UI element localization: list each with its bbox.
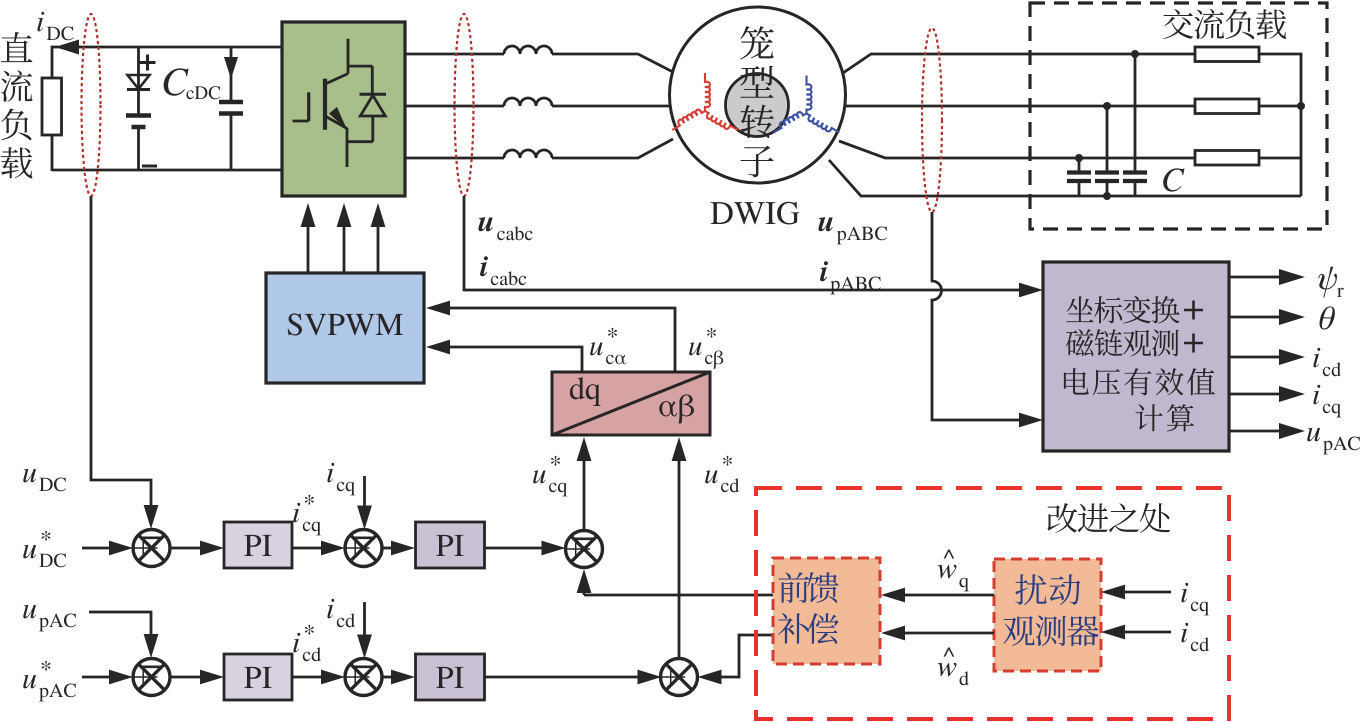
resistor DC load xyxy=(42,78,62,135)
label u_pAC* xyxy=(23,661,76,702)
wire phase b inverter-machine xyxy=(405,105,670,108)
label i_pABC xyxy=(820,261,881,294)
label u_DC xyxy=(23,469,66,492)
wire phase C machine-load xyxy=(839,141,1195,158)
wire w_q observer to feedforward xyxy=(881,588,994,603)
capacitor C2 xyxy=(1095,106,1119,196)
wire S4 to PI3 xyxy=(170,670,224,685)
wire neutral machine-load xyxy=(829,160,1301,196)
label u_pAC out xyxy=(1307,428,1360,455)
summing junction S5 xyxy=(345,659,382,696)
wire PI4 to S6 xyxy=(485,670,662,685)
capacitor C1 xyxy=(1067,158,1091,196)
IGBT symbol xyxy=(293,39,349,167)
label u_cd* xyxy=(705,456,739,492)
wire u_DC* arrow xyxy=(82,541,133,556)
label u_cabc xyxy=(478,217,532,240)
junction dots AC load xyxy=(1075,50,1305,200)
block PI3 xyxy=(224,654,292,700)
label i_cq* xyxy=(293,495,320,536)
wire output i_cq xyxy=(1229,386,1305,402)
summing junction S1 xyxy=(133,530,170,567)
label plus xyxy=(140,55,156,71)
summing junction S4 xyxy=(133,659,170,696)
wire phase A machine-load xyxy=(843,54,1195,73)
arrow i_DC direction xyxy=(55,40,79,55)
wire u_pAC* arrow xyxy=(82,670,133,685)
block PI4 xyxy=(416,654,485,700)
label i_cq input xyxy=(1181,583,1208,616)
wire output u_pAC xyxy=(1229,423,1305,439)
label u_pAC xyxy=(23,605,76,632)
AC load dashed box xyxy=(1030,3,1327,229)
summing junction S6 xyxy=(661,659,698,696)
wire phase c inverter-machine xyxy=(405,139,673,158)
DWIG rotor circle xyxy=(726,74,789,137)
wire u_DC into sum1 xyxy=(90,479,93,482)
block SVPWM xyxy=(266,273,424,383)
wire u_DC measurement down to summing node xyxy=(91,196,158,529)
wire u_calpha* to SVPWM xyxy=(426,340,582,372)
wire DC bus top rail xyxy=(52,46,282,49)
wire S5 to PI4 xyxy=(382,670,415,685)
label i_DC xyxy=(37,12,73,41)
wire feedforward wd into S6 xyxy=(698,635,775,684)
wire PI1 to S2 xyxy=(292,541,345,556)
inductor Lc xyxy=(504,150,552,158)
label i_cd feedback xyxy=(327,599,355,627)
block feedforward compensation (前馈补偿) xyxy=(773,558,880,664)
winding control side (red) xyxy=(672,73,738,130)
wire phase a inverter-machine xyxy=(405,54,674,73)
wire S1 to PI1 xyxy=(170,541,224,556)
label psi_r xyxy=(1318,267,1343,298)
measurement ellipse DC bus xyxy=(82,14,101,196)
inductor Lb xyxy=(504,98,552,106)
label i_cd out xyxy=(1313,348,1341,376)
label w_q hat xyxy=(937,549,968,591)
summing junction S3 xyxy=(566,531,603,568)
label i_cabc xyxy=(480,256,526,285)
wire gate signal 2 xyxy=(337,203,352,273)
label i_cq out xyxy=(1313,385,1340,418)
label AC load (交流负载) xyxy=(1163,9,1286,39)
label DWIG xyxy=(711,202,800,225)
block PI2 xyxy=(416,522,485,568)
battery branch with diode xyxy=(127,47,150,115)
wire i_cd into S5 xyxy=(357,602,372,659)
summing junction S2 xyxy=(345,530,382,567)
label u_cq* xyxy=(533,456,567,497)
block coordinate transform xyxy=(1043,262,1229,451)
label C_cDC xyxy=(164,68,221,99)
wire cabc measurement to transform block xyxy=(464,196,1043,297)
label i_cd* xyxy=(293,625,321,661)
label minus xyxy=(142,165,157,168)
capacitor C3 xyxy=(1123,54,1147,196)
resistor AC phase C xyxy=(1195,151,1259,166)
wire AC load right bus xyxy=(1259,54,1301,196)
label w_d hat xyxy=(937,647,968,685)
wire u_cd* into dq block xyxy=(672,437,687,658)
wire output theta xyxy=(1229,309,1305,325)
measurement ellipse converter side xyxy=(455,14,474,196)
label DC load (直流负载) xyxy=(1,32,33,178)
resistor AC phase A xyxy=(1195,47,1259,62)
wire w_d observer to feedforward xyxy=(881,626,994,641)
wire i_cq into observer xyxy=(1101,585,1171,600)
block PI1 xyxy=(224,522,292,568)
wire u_pAC into S4 xyxy=(89,612,158,658)
wire pABC measurement with hop xyxy=(932,212,1043,427)
wire phase B machine-load xyxy=(845,105,1195,108)
label coordinate transform text xyxy=(1064,296,1215,432)
label theta xyxy=(1320,306,1335,329)
block disturbance observer (扰动观测器) xyxy=(994,559,1101,671)
label u_calpha* xyxy=(590,328,626,365)
label u_cbeta* xyxy=(689,328,723,369)
capacitor C_cDC branch xyxy=(219,47,243,170)
wire u_cq* into dq block xyxy=(577,437,592,529)
measurement ellipse power side xyxy=(922,28,942,212)
improvement dashed box (改进之处) xyxy=(756,488,1229,719)
wire output psi_r xyxy=(1229,269,1305,285)
label i_cq feedback xyxy=(327,463,354,496)
wire gate signal 1 xyxy=(301,203,316,273)
wire DC load left branch xyxy=(51,46,54,171)
wire feedforward wq into S3 xyxy=(577,569,774,595)
wire PI2 to S3 xyxy=(485,541,566,556)
wire u_cbeta* to SVPWM xyxy=(426,301,675,372)
label i_cd input xyxy=(1181,623,1209,651)
wire S2 to PI2 xyxy=(382,541,415,556)
battery plates xyxy=(126,116,151,171)
wire DC bus bottom rail xyxy=(52,169,282,172)
inverter block xyxy=(282,22,405,196)
wire i_cq into S2 xyxy=(357,476,372,530)
wire output i_cd xyxy=(1229,349,1305,365)
wire PI3 to S5 xyxy=(292,670,345,685)
inductor La xyxy=(504,46,552,54)
resistor AC phase B xyxy=(1195,99,1259,114)
wire gate signal 3 xyxy=(371,203,386,273)
label u_pABC xyxy=(818,217,887,244)
winding power side (blue) xyxy=(774,76,840,133)
wire i_cd into observer xyxy=(1101,625,1171,640)
label improvement (改进之处) xyxy=(1047,503,1170,533)
label C xyxy=(1163,168,1184,191)
block dq-alphabeta transform xyxy=(552,372,710,435)
label cage rotor (笼型转子) xyxy=(740,26,774,177)
IGBT anti-parallel diode xyxy=(347,66,386,142)
label u_DC* xyxy=(23,531,66,568)
DWIG machine stator circle xyxy=(670,7,846,183)
